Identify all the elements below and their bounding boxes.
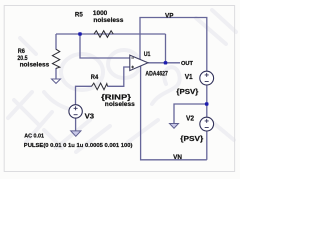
op-amp minus symbol: [131, 57, 134, 59]
resistor R4 zigzag: [92, 83, 108, 90]
svg-text:{PSV}: {PSV}: [180, 136, 203, 143]
wire: left vertical down to R6: [55, 34, 57, 50]
svg-text:OUT: OUT: [181, 61, 193, 67]
svg-text:V1: V1: [185, 74, 193, 81]
svg-text:noiseless: noiseless: [105, 101, 135, 108]
outer frame: [4, 6, 234, 172]
svg-text:R5: R5: [75, 12, 83, 19]
svg-text:R4: R4: [91, 74, 99, 81]
wire: non-inverting input branch: [108, 67, 130, 86]
svg-text:{PSV}: {PSV}: [176, 89, 198, 96]
svg-text:U1: U1: [144, 51, 151, 58]
ground (V3): [71, 131, 81, 136]
svg-text:VN: VN: [173, 154, 182, 161]
wire: R4 left lead to V3: [76, 86, 92, 105]
svg-text:1000: 1000: [93, 10, 108, 17]
svg-text:VP: VP: [165, 12, 174, 19]
source V3: [69, 105, 82, 118]
wire: V1 bottom to mid junction: [206, 85, 208, 117]
wire: inverting input branch: [80, 34, 130, 58]
wire: VP rail: [140, 18, 207, 72]
node junction dot (inverting): [78, 32, 82, 35]
wire: top feedback rail from R6 corner to feedback corner: [56, 33, 166, 35]
wire: output to OUT label: [148, 62, 180, 64]
watermark ghost shapes: [8, 10, 236, 152]
wire: R6 bottom lead to ground: [55, 68, 57, 79]
node junction dot (supply mid): [205, 102, 209, 105]
svg-text:noiseless: noiseless: [93, 17, 123, 24]
ground (R6): [52, 79, 61, 83]
wire: mid node to ground branch: [174, 104, 207, 123]
node junction dot (output): [164, 61, 168, 64]
svg-text:V2: V2: [186, 116, 194, 123]
resistor R6 zigzag: [52, 49, 59, 68]
op-amp U1: [130, 55, 148, 71]
wire: feedback vertical to output node: [165, 34, 167, 63]
source V2: [200, 117, 214, 131]
svg-text:R6: R6: [18, 48, 26, 55]
svg-text:V3: V3: [85, 114, 95, 121]
source V1: [200, 71, 214, 85]
op-amp plus symbol: [131, 66, 134, 69]
resistor R5 zigzag: [94, 31, 113, 38]
svg-text:ADA4627: ADA4627: [145, 72, 168, 78]
ground (V2 branch): [170, 124, 179, 129]
svg-text:noiseless: noiseless: [20, 62, 50, 69]
wire: V2 bottom to VN rail: [206, 131, 208, 160]
wire: VN rail: [141, 66, 207, 160]
svg-text:AC 0.01: AC 0.01: [24, 133, 45, 139]
wire: V3 bottom lead: [75, 118, 77, 131]
svg-text:PULSE(0 0.01 0 1u 1u 0.0005 0.: PULSE(0 0.01 0 1u 1u 0.0005 0.001 100): [24, 143, 133, 149]
